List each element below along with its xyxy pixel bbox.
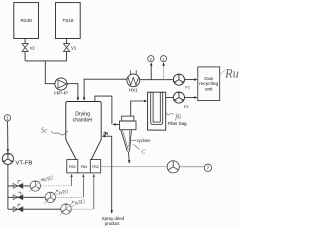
- wire main gas line HX1 to F1: [140, 79, 174, 81]
- tank T510: [56, 3, 81, 39]
- valve V1: [64, 44, 77, 52]
- node sample point 1: [161, 56, 167, 80]
- cyclone: [120, 116, 137, 152]
- svg-text:Drying: Drying: [75, 112, 90, 118]
- collection pot FB2: [67, 160, 78, 173]
- svg-text:cyclone: cyclone: [137, 138, 152, 143]
- valve branch1: [13, 181, 23, 189]
- label cyclone: [132, 138, 152, 143]
- svg-text:chamber: chamber: [73, 118, 93, 124]
- annotation f6 handwritten: [166, 112, 181, 121]
- wire branch 3: [8, 208, 61, 210]
- collection pot FB1: [78, 165, 91, 173]
- wire cyclone gas outlet to filter bag: [131, 101, 145, 116]
- wire F2 to gas recycling unit: [185, 97, 195, 99]
- blower WB2: [29, 178, 43, 192]
- svg-text:F2: F2: [184, 104, 189, 109]
- svg-text:Sc: Sc: [41, 127, 49, 135]
- svg-text:FB1: FB1: [81, 165, 88, 169]
- svg-text:HX1: HX1: [129, 88, 138, 93]
- blower WB3: [60, 201, 74, 215]
- svg-text:WB2: WB2: [42, 175, 54, 184]
- wire branch 2: [8, 196, 45, 198]
- wire cyclone underflow: [128, 152, 131, 161]
- svg-text:7: 7: [207, 166, 210, 171]
- svg-text:Ru: Ru: [224, 66, 239, 80]
- svg-text:1: 1: [6, 116, 9, 121]
- annotation WB3 handwritten: [71, 205, 74, 206]
- drying chamber: [66, 102, 101, 160]
- valve branch3: [13, 204, 23, 212]
- svg-text:C: C: [141, 149, 146, 156]
- svg-text:Gas: Gas: [204, 76, 213, 82]
- svg-text:T510: T510: [62, 18, 73, 24]
- svg-text:product: product: [105, 221, 120, 226]
- svg-text:1: 1: [162, 56, 165, 61]
- svg-text:F1: F1: [185, 85, 190, 90]
- fan F2: [173, 92, 189, 109]
- svg-text:VT-FB: VT-FB: [15, 161, 33, 167]
- svg-text:recycling: recycling: [199, 81, 218, 87]
- svg-text:Filter bag: Filter bag: [168, 121, 187, 126]
- wire pump outlet into chamber: [67, 84, 78, 98]
- valve branch2: [13, 192, 23, 200]
- svg-text:R240: R240: [20, 18, 32, 24]
- wire node 1 to fan VT-FB: [7, 121, 9, 153]
- wire T510 to valve V1: [66, 39, 68, 61]
- svg-text:WB3: WB3: [74, 199, 86, 208]
- svg-text:WB1: WB1: [58, 189, 70, 197]
- node 7: [204, 164, 211, 171]
- pump HP-P: [54, 78, 68, 96]
- svg-text:f6: f6: [175, 112, 181, 121]
- valve V2: [22, 44, 35, 52]
- wire R240 to valve V2: [24, 39, 26, 61]
- svg-text:FB2: FB2: [69, 165, 76, 169]
- wire branch 1: [8, 185, 31, 187]
- wire fines return into chamber: [105, 135, 112, 137]
- svg-text:V1: V1: [71, 46, 77, 51]
- node 1 left: [4, 115, 10, 121]
- wire F1 to gas recycling unit: [185, 79, 195, 81]
- wire filter bag to F2: [166, 97, 174, 99]
- filter bag: [148, 92, 187, 130]
- wire cyclone inlet stub: [116, 123, 120, 125]
- svg-text:V2: V2: [30, 46, 36, 51]
- annotation Ru handwritten: [220, 70, 225, 75]
- annotation C handwritten: [134, 144, 147, 155]
- fan F1: [173, 74, 191, 90]
- wire product line from FB3: [101, 166, 167, 168]
- fan VT-FB: [2, 153, 33, 166]
- svg-text:2: 2: [150, 56, 153, 61]
- wire chamber top outlet to cyclone: [95, 96, 112, 124]
- node sample point 2: [148, 56, 154, 80]
- svg-text:FB3: FB3: [92, 165, 99, 169]
- wire fan to node 7: [179, 166, 204, 168]
- collection pot FB3: [90, 160, 100, 173]
- tank R240: [14, 3, 39, 39]
- blower WB1: [44, 190, 58, 204]
- fan product conveyor: [167, 161, 179, 173]
- wire down to pump inlet: [45, 61, 55, 84]
- annotation WB1 handwritten: [53, 193, 58, 196]
- annotation Sc handwritten: [41, 127, 68, 135]
- wire spray dried product outlet: [111, 167, 113, 211]
- svg-text:unit: unit: [205, 87, 213, 93]
- gas recycling unit: [198, 67, 220, 101]
- svg-text:HP-P: HP-P: [54, 90, 68, 95]
- wire hot gas from HX1 into chamber: [84, 79, 127, 97]
- heat exchanger HX1: [127, 70, 140, 92]
- wire fluidization header: [7, 165, 9, 210]
- svg-text:ʃR: ʃR: [102, 131, 109, 136]
- wire join of tank lines: [25, 60, 67, 62]
